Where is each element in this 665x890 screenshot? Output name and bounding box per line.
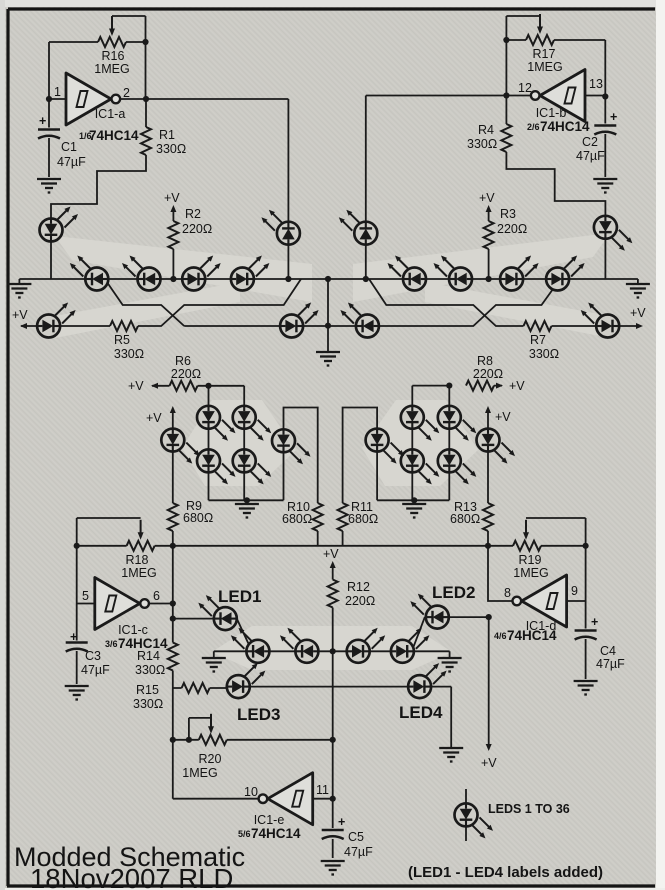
capacitor C5 xyxy=(322,830,344,839)
svg-text:LED3: LED3 xyxy=(237,705,280,724)
svg-text:+: + xyxy=(610,110,617,124)
svg-text:5/6: 5/6 xyxy=(238,829,251,839)
ground center column xyxy=(316,352,340,366)
svg-text:1MEG: 1MEG xyxy=(527,60,562,74)
wire IC1-e input / C5 xyxy=(313,799,333,858)
svg-text:1MEG: 1MEG xyxy=(513,566,548,580)
wire mouth bus segments xyxy=(214,650,450,652)
LED B2 xyxy=(280,303,319,338)
svg-text:LED1: LED1 xyxy=(218,587,261,606)
svg-text:LEDS 1 TO 36: LEDS 1 TO 36 xyxy=(488,802,570,816)
hysteresis glyph IC1-c xyxy=(105,596,116,612)
svg-text:+V: +V xyxy=(146,411,162,425)
svg-text:+V: +V xyxy=(128,379,144,393)
resistor R9 xyxy=(168,503,178,531)
ground LED4 drop xyxy=(439,748,463,762)
svg-text:330Ω: 330Ω xyxy=(156,142,186,156)
LED right cluster 1 xyxy=(401,406,440,441)
wire R8 leads xyxy=(412,386,502,406)
LED A1 xyxy=(70,256,109,291)
resistor R20 xyxy=(199,735,227,745)
svg-text:47µF: 47µF xyxy=(81,663,110,677)
wire right cluster column links xyxy=(412,429,449,501)
svg-text:18Nov2007 RLD: 18Nov2007 RLD xyxy=(30,863,233,890)
ground C1 xyxy=(37,179,61,193)
svg-text:+V: +V xyxy=(630,306,646,320)
op-amp U5 IC1-e xyxy=(259,773,313,825)
resistor R16 xyxy=(98,37,126,47)
LED legend xyxy=(455,803,494,838)
wire right spine pin9/C4 xyxy=(567,546,586,679)
svg-text:2: 2 xyxy=(123,86,130,100)
resistor R4 xyxy=(501,124,511,152)
svg-text:47µF: 47µF xyxy=(576,149,605,163)
LED left cluster 1 xyxy=(197,406,236,441)
wire R6 leads xyxy=(152,386,244,406)
LED B1 xyxy=(37,303,76,338)
capacitor C2 xyxy=(594,126,616,135)
wire +V drop right of LED2 xyxy=(488,617,490,744)
LED B3 xyxy=(340,303,379,338)
wire row B center segments xyxy=(184,279,560,326)
+V supply arrow R8 xyxy=(496,383,503,389)
svg-text:+V: +V xyxy=(164,191,180,205)
svg-text:R20: R20 xyxy=(199,752,222,766)
LED D6 mouth xyxy=(280,628,319,663)
svg-text:47µF: 47µF xyxy=(344,845,373,859)
wire center spine down to IC1-e input xyxy=(332,651,334,798)
wire R16 wiper loop xyxy=(112,16,146,42)
LED right cluster 2 xyxy=(438,406,477,441)
resistor R17 xyxy=(526,35,554,45)
svg-text:C2: C2 xyxy=(582,135,598,149)
svg-text:1: 1 xyxy=(54,85,61,99)
wire R20 wiper loop xyxy=(189,718,211,740)
wire top-right LED to bus xyxy=(604,239,606,279)
svg-text:+V: +V xyxy=(495,410,511,424)
svg-text:R8: R8 xyxy=(477,354,493,368)
svg-text:1MEG: 1MEG xyxy=(182,766,217,780)
svg-text:8: 8 xyxy=(504,586,511,600)
hysteresis glyph IC1-a xyxy=(77,91,88,107)
wire top-left LED to bus xyxy=(50,242,52,280)
svg-text:R7: R7 xyxy=(530,333,546,347)
+V supply arrow R12 xyxy=(330,561,336,568)
+V supply arrow bottom right xyxy=(486,744,492,751)
wire C2 xyxy=(604,97,606,178)
hysteresis glyph IC1-e xyxy=(292,791,303,807)
wire R17 leads xyxy=(506,40,605,97)
wire R12 spine xyxy=(332,566,334,651)
LED A3 xyxy=(182,256,221,291)
LED T1 top-left xyxy=(40,207,79,242)
svg-text:1MEG: 1MEG xyxy=(121,566,156,580)
LED T4 top-right xyxy=(594,216,633,251)
svg-text:+V: +V xyxy=(323,547,339,561)
light beam shading xyxy=(55,236,312,302)
ground mouth right xyxy=(438,658,462,672)
wire right single LED +V and R13 xyxy=(487,411,489,546)
svg-text:+V: +V xyxy=(509,379,525,393)
svg-text:4/6: 4/6 xyxy=(494,631,507,641)
LED T3 center-right top xyxy=(339,210,378,245)
wire IC1-d input from R13/R19 node xyxy=(488,546,513,601)
svg-text:220Ω: 220Ω xyxy=(497,222,527,236)
wire LED3-LED4 row xyxy=(250,687,451,747)
svg-text:10: 10 xyxy=(244,785,258,799)
LED A6 xyxy=(434,256,473,291)
wire left cluster column links xyxy=(209,429,245,501)
svg-text:680Ω: 680Ω xyxy=(282,512,312,526)
LED right cluster single xyxy=(477,429,516,464)
svg-text:R2: R2 xyxy=(185,207,201,221)
svg-text:+V: +V xyxy=(481,756,497,770)
wire R16 right lead to output vertical xyxy=(126,42,146,99)
LED B4 xyxy=(581,303,620,338)
+V supply arrow R3 xyxy=(486,205,492,212)
wire legend LED stem xyxy=(465,789,467,841)
wire mid bus y=545.8 xyxy=(77,545,586,547)
LED D8 mouth xyxy=(391,628,430,663)
svg-text:2/6: 2/6 xyxy=(527,122,540,132)
svg-text:LED4: LED4 xyxy=(399,703,443,722)
svg-text:IC1-e: IC1-e xyxy=(254,813,285,827)
svg-text:R5: R5 xyxy=(114,333,130,347)
svg-text:680Ω: 680Ω xyxy=(183,511,213,525)
hysteresis glyph IC1-d xyxy=(547,593,558,609)
ground right cluster xyxy=(402,504,426,518)
wire R17 wiper loop xyxy=(506,16,540,40)
capacitor C4 xyxy=(575,631,597,640)
wire mouth bus ground stems xyxy=(214,651,450,657)
resistor R7 xyxy=(524,321,552,331)
svg-text:47µF: 47µF xyxy=(57,155,86,169)
LED right cluster 4 xyxy=(438,449,477,484)
resistor R15 xyxy=(182,683,210,693)
svg-text:+: + xyxy=(338,815,345,829)
svg-text:220Ω: 220Ω xyxy=(473,367,503,381)
wire R18 wiper loop xyxy=(77,518,141,546)
LED D2 LED2 xyxy=(410,594,449,629)
wire R20 leads xyxy=(173,739,333,741)
svg-text:74HC14: 74HC14 xyxy=(118,636,168,651)
svg-text:R16: R16 xyxy=(102,49,125,63)
wire R3 to bus xyxy=(488,210,490,279)
wire right cluster left LED to R11 xyxy=(343,408,378,546)
resistor R6 xyxy=(170,381,198,391)
svg-text:R12: R12 xyxy=(347,580,370,594)
svg-text:R14: R14 xyxy=(137,649,160,663)
wire center-right vertical LED xyxy=(365,96,367,280)
wire bus A left ground stem xyxy=(18,279,20,284)
wire IC1-c output xyxy=(149,603,173,605)
svg-text:330Ω: 330Ω xyxy=(133,697,163,711)
svg-text:R1: R1 xyxy=(159,128,175,142)
resistor R12 xyxy=(328,580,338,608)
wire IC1-a output to center LED xyxy=(120,98,289,100)
resistor R11 xyxy=(338,503,348,531)
resistor R2 xyxy=(168,221,178,249)
wire R15 leads xyxy=(173,687,227,689)
ground bus A right xyxy=(626,284,650,298)
ground C3 xyxy=(65,686,89,700)
LED left cluster 4 xyxy=(233,449,272,484)
svg-text:C1: C1 xyxy=(61,140,77,154)
wire left cluster right LED to R10 xyxy=(284,408,318,546)
LED right cluster left xyxy=(366,429,405,464)
wire row B right with R7 xyxy=(369,279,641,326)
svg-text:330Ω: 330Ω xyxy=(114,347,144,361)
resistor R8 xyxy=(466,381,494,391)
resistor R5 xyxy=(110,321,138,331)
+V supply arrow row B left xyxy=(20,323,27,329)
wire IC1-b input xyxy=(585,95,605,97)
svg-text:47µF: 47µF xyxy=(596,657,625,671)
svg-text:330Ω: 330Ω xyxy=(467,137,497,151)
wire bus A right ground stem xyxy=(637,279,639,284)
wire bus row A segments xyxy=(19,278,638,280)
LED T2 center-left top xyxy=(261,210,300,245)
svg-text:220Ω: 220Ω xyxy=(182,222,212,236)
svg-text:74HC14: 74HC14 xyxy=(251,826,301,841)
svg-text:220Ω: 220Ω xyxy=(345,594,375,608)
svg-text:330Ω: 330Ω xyxy=(529,347,559,361)
LED left cluster 2 xyxy=(233,406,272,441)
svg-text:R18: R18 xyxy=(126,553,149,567)
svg-text:R4: R4 xyxy=(478,123,494,137)
ground bus A left xyxy=(7,284,31,298)
svg-text:11: 11 xyxy=(316,783,329,797)
svg-text:C3: C3 xyxy=(85,649,101,663)
wire left spine pin5/C3 xyxy=(77,546,95,684)
wire IC1-b output to center LED xyxy=(366,95,531,97)
svg-text:12: 12 xyxy=(518,81,532,95)
resistor R13 xyxy=(483,503,493,531)
svg-text:R15: R15 xyxy=(136,683,159,697)
svg-text:IC1-a: IC1-a xyxy=(95,107,126,121)
+V supply arrow row B right xyxy=(636,323,643,329)
LED D3 LED3 xyxy=(227,663,265,698)
svg-text:74HC14: 74HC14 xyxy=(89,128,139,143)
wire center column to ground xyxy=(327,279,329,352)
svg-text:680Ω: 680Ω xyxy=(450,512,480,526)
svg-text:IC1-b: IC1-b xyxy=(536,106,567,120)
svg-text:220Ω: 220Ω xyxy=(171,367,201,381)
wire left single LED +V and R9 xyxy=(172,411,174,546)
svg-text:5: 5 xyxy=(82,589,89,603)
svg-text:R17: R17 xyxy=(533,47,556,61)
ground left cluster xyxy=(235,504,259,518)
+V supply arrow R6 xyxy=(151,383,158,389)
svg-text:R3: R3 xyxy=(500,207,516,221)
svg-text:R6: R6 xyxy=(175,354,191,368)
resistor R18 xyxy=(127,541,155,551)
+V supply arrow right cluster xyxy=(485,406,491,413)
svg-text:6: 6 xyxy=(153,589,160,603)
svg-text:74HC14: 74HC14 xyxy=(540,119,590,134)
svg-text:680Ω: 680Ω xyxy=(348,512,378,526)
resistor R19 xyxy=(513,541,541,551)
wire R2 to bus xyxy=(172,210,174,279)
ground mouth left xyxy=(202,658,226,672)
svg-text:9: 9 xyxy=(571,584,578,598)
LED D4 LED4 xyxy=(408,663,447,698)
wire R4 leads and jog to LED xyxy=(506,96,605,216)
wire left mouth spine with R14 xyxy=(172,546,174,740)
LED A8 xyxy=(546,256,585,291)
svg-text:(LED1 - LED4 labels added): (LED1 - LED4 labels added) xyxy=(408,864,603,881)
op-amp U4 IC1-d xyxy=(513,575,567,627)
svg-text:74HC14: 74HC14 xyxy=(507,628,557,643)
wire LED1 branch xyxy=(173,618,214,620)
svg-text:1MEG: 1MEG xyxy=(94,62,129,76)
resistor R3 xyxy=(484,221,494,249)
capacitor C1 xyxy=(38,130,60,139)
wire R16 left lead + input drop xyxy=(49,42,98,99)
node junction dots xyxy=(142,39,148,45)
svg-text:+: + xyxy=(70,630,77,644)
svg-text:+: + xyxy=(39,114,46,128)
wire IC1-e output xyxy=(173,740,259,799)
wire left cluster bottom rail xyxy=(209,500,284,504)
wire center-left vertical LED xyxy=(287,99,289,279)
wire R19 wiper loop xyxy=(526,518,586,546)
LED D5 mouth xyxy=(231,628,270,663)
ground C2 xyxy=(593,179,617,193)
wire row B left with R5 xyxy=(21,279,301,326)
wire R1 leads and jog to LED xyxy=(51,99,146,219)
wire LED1 diagonal to mouth bus xyxy=(237,619,252,652)
svg-text:+V: +V xyxy=(12,308,28,322)
svg-text:LED2: LED2 xyxy=(432,583,475,602)
resistor R1 xyxy=(141,127,151,155)
ground C5 xyxy=(321,861,345,875)
wire C1 xyxy=(48,99,50,177)
wire left crossover upper xyxy=(105,279,184,326)
svg-text:3/6: 3/6 xyxy=(105,639,118,649)
op-amp U3 IC1-c xyxy=(95,578,149,630)
LED D7 mouth xyxy=(347,628,386,663)
LED D1 LED1 xyxy=(198,595,237,630)
LED left cluster right xyxy=(272,429,311,464)
capacitor C3 xyxy=(66,643,88,652)
+V supply arrow left cluster xyxy=(170,406,176,413)
resistor R10 xyxy=(313,503,323,531)
LED A2 xyxy=(122,256,161,291)
svg-text:C5: C5 xyxy=(348,830,364,844)
svg-text:C4: C4 xyxy=(600,644,616,658)
hysteresis glyph IC1-b xyxy=(565,88,576,104)
wire LED2 branch xyxy=(412,617,489,651)
op-amp U1 IC1-a xyxy=(66,73,120,125)
LED A4 xyxy=(231,256,270,291)
svg-text:330Ω: 330Ω xyxy=(135,663,165,677)
op-amp U2 IC1-b xyxy=(531,70,585,122)
+V supply arrow R2 xyxy=(170,205,176,212)
svg-text:+V: +V xyxy=(479,191,495,205)
LED left cluster 3 xyxy=(197,449,236,484)
svg-text:IC1-c: IC1-c xyxy=(118,623,148,637)
svg-text:13: 13 xyxy=(589,77,603,91)
LED A5 xyxy=(388,256,427,291)
LED A7 xyxy=(500,256,538,291)
resistor R14 xyxy=(168,643,178,671)
LED right cluster 3 xyxy=(401,449,440,484)
wire left cluster col1 drop xyxy=(208,386,210,406)
wire right cluster bottom rail xyxy=(377,500,449,504)
ground C4 xyxy=(574,681,598,695)
LED left cluster single xyxy=(161,429,200,464)
svg-text:R19: R19 xyxy=(519,553,542,567)
svg-text:+: + xyxy=(591,615,598,629)
